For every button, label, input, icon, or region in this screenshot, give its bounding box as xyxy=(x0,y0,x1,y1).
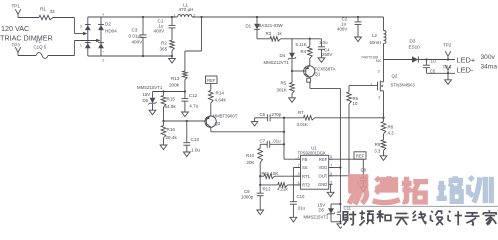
label D2 HD04 xyxy=(105,22,117,34)
pin 2 SS xyxy=(295,164,307,171)
svg-text:D2: D2 xyxy=(105,22,111,27)
svg-text:365: 365 xyxy=(160,47,168,52)
ground under R9 xyxy=(380,156,387,161)
wire OUT pin to R6 xyxy=(329,175,349,177)
svg-text:300v: 300v xyxy=(481,54,496,61)
svg-text:3: 3 xyxy=(298,172,300,176)
wire VDD rail vertical xyxy=(339,118,341,212)
resistor R1 33 xyxy=(39,7,55,20)
op-amp U1 TPS92001DGK body xyxy=(298,146,329,190)
svg-text:50mH: 50mH xyxy=(370,40,382,45)
svg-text:R15: R15 xyxy=(167,96,176,101)
pin 3 RT1 xyxy=(295,172,310,179)
svg-text:REF: REF xyxy=(207,78,216,83)
node C1 top xyxy=(171,16,173,18)
capacitor C8 0.47u xyxy=(357,159,367,185)
svg-text:C13: C13 xyxy=(191,137,200,142)
svg-text:3.3: 3.3 xyxy=(374,148,381,153)
diode D2c lower-left xyxy=(85,43,91,48)
transistor Q1 FCX558TA xyxy=(292,66,336,89)
svg-text:R10: R10 xyxy=(246,153,255,158)
ground under R5 xyxy=(291,94,293,98)
ground under C13 xyxy=(186,145,188,152)
svg-text:TP1: TP1 xyxy=(12,4,21,9)
svg-text:34ma: 34ma xyxy=(481,64,498,71)
diode D3 ES10 xyxy=(409,38,421,62)
pin 5 GND xyxy=(318,180,333,187)
svg-text:MMSZ15VT1: MMSZ15VT1 xyxy=(304,214,329,219)
node C3 top xyxy=(142,16,144,18)
ground under C11 xyxy=(339,222,341,224)
ground under C10 xyxy=(292,204,294,217)
resistor R14 4.64k xyxy=(209,83,227,115)
svg-text:D6: D6 xyxy=(143,98,149,103)
node 15V bias rail xyxy=(184,90,186,92)
svg-text:REF: REF xyxy=(356,154,365,159)
svg-text:.01u: .01u xyxy=(272,138,281,143)
svg-text:OUT: OUT xyxy=(318,173,327,178)
bottom DC rail (return) xyxy=(88,55,172,57)
node top rail to bias xyxy=(200,16,202,18)
svg-text:4.64k: 4.64k xyxy=(215,97,227,102)
pin 4 RT2 xyxy=(295,181,310,188)
ground main return xyxy=(171,56,173,58)
svg-text:TP2: TP2 xyxy=(443,42,452,47)
svg-text:C8: C8 xyxy=(361,168,367,173)
svg-text:R14: R14 xyxy=(216,91,225,96)
fuse F1 C1Q 5 xyxy=(34,39,49,58)
wire Q3 base net xyxy=(164,120,205,122)
wire 15V bias rail xyxy=(153,91,185,93)
svg-text:400V: 400V xyxy=(337,26,347,31)
svg-text:4.3: 4.3 xyxy=(388,130,395,135)
node R16 top xyxy=(162,120,164,122)
node R15 top xyxy=(162,90,164,92)
node R4 top xyxy=(309,38,311,40)
svg-text:TRIAC DIMMER: TRIAC DIMMER xyxy=(0,34,53,43)
ground under C9 xyxy=(259,196,261,210)
svg-text:FB: FB xyxy=(302,157,308,162)
resistor R13 200k xyxy=(169,71,187,99)
svg-text:R5: R5 xyxy=(281,80,287,85)
svg-text:8: 8 xyxy=(330,155,332,159)
diode D2a upper-left xyxy=(85,25,91,30)
ground under C4 xyxy=(321,49,323,58)
wire L2 bottom to D3 xyxy=(384,59,413,61)
svg-text:4: 4 xyxy=(298,181,300,185)
svg-text:C12: C12 xyxy=(189,93,198,98)
resistor R12 4.22k xyxy=(260,183,300,192)
svg-text:5: 5 xyxy=(330,180,332,184)
svg-text:120 VAC: 120 VAC xyxy=(1,24,29,33)
capacitor C13 1.0u xyxy=(183,121,200,152)
net label REF (U1) xyxy=(354,152,366,159)
node C5 tap xyxy=(425,58,427,60)
test point TP3 xyxy=(12,43,21,56)
diode D2d lower-right xyxy=(98,43,104,48)
svg-text:54.9k: 54.9k xyxy=(165,104,177,109)
wire Q3 collector to FB xyxy=(211,131,284,133)
node Q2 source sense xyxy=(382,117,384,119)
wire FB vertical xyxy=(283,118,285,159)
resistor R16 29.4k xyxy=(161,121,177,140)
svg-text:C9: C9 xyxy=(244,189,250,194)
svg-text:2: 2 xyxy=(298,164,300,168)
inductor L1 470 uH xyxy=(174,2,196,17)
diode D1 BAS21-03W xyxy=(246,17,284,39)
AC arrow into bridge left xyxy=(83,32,87,36)
capacitor C7 .01u xyxy=(260,138,285,147)
svg-text:R13: R13 xyxy=(171,76,180,81)
svg-text:RT2: RT2 xyxy=(302,183,311,188)
ground under D6 xyxy=(152,104,154,110)
svg-text:ES10: ES10 xyxy=(409,45,421,50)
svg-text:D1: D1 xyxy=(246,24,252,29)
node RT2 divider xyxy=(259,184,261,186)
svg-text:3: 3 xyxy=(378,96,380,100)
wire Q1 collector to VDD rail xyxy=(310,87,341,89)
svg-text:R16: R16 xyxy=(167,127,176,132)
svg-text:MMSZ12VT1: MMSZ12VT1 xyxy=(264,60,290,65)
svg-text:1000p: 1000p xyxy=(241,194,254,199)
ground under U1 GND xyxy=(327,192,334,197)
svg-text:D3: D3 xyxy=(410,38,416,43)
wire GND pin down xyxy=(330,184,332,192)
svg-text:RT1: RT1 xyxy=(302,174,311,179)
node R2 bottom xyxy=(171,55,173,57)
resistor R8 4.3 xyxy=(381,118,394,140)
svg-text:6: 6 xyxy=(330,172,332,176)
svg-text:+: + xyxy=(102,12,105,17)
svg-text:C1Q 5: C1Q 5 xyxy=(34,45,47,50)
node D1 top xyxy=(256,16,258,18)
pin 7 VDD xyxy=(318,164,332,171)
svg-text:400V: 400V xyxy=(132,39,144,44)
resistor R11 10K xyxy=(260,171,300,178)
svg-text:R3: R3 xyxy=(266,31,272,36)
transistor Q3 MMBT3906T xyxy=(205,114,238,132)
svg-text:.1U: .1U xyxy=(430,59,437,64)
svg-text:7: 7 xyxy=(330,164,332,168)
diode D2b upper-right xyxy=(98,25,104,30)
svg-text:1k: 1k xyxy=(277,31,282,36)
svg-text:5.11K: 5.11K xyxy=(296,42,307,47)
resistor R6 10 (gate) xyxy=(347,86,359,176)
svg-text:4.7u: 4.7u xyxy=(189,104,198,109)
capacitor C3 0.01uF 400V xyxy=(129,17,147,56)
wire R3 to C4 xyxy=(281,38,322,40)
svg-text:2: 2 xyxy=(102,59,104,63)
node FB drop xyxy=(283,117,285,119)
svg-text:3.01K: 3.01K xyxy=(297,122,309,127)
svg-text:TPS92001DGK: TPS92001DGK xyxy=(298,150,326,155)
svg-text:C5: C5 xyxy=(430,68,436,73)
pin 1 FB xyxy=(295,155,307,162)
watermark slogan characters xyxy=(343,210,496,225)
resistor R15 54.9k xyxy=(161,92,176,122)
resistor R3 1k xyxy=(266,31,283,41)
svg-text:400V: 400V xyxy=(154,28,166,33)
inductor L2 50mH 744770168 xyxy=(361,17,386,63)
capacitor C9 1000p xyxy=(241,189,264,200)
svg-text:Q1: Q1 xyxy=(315,71,321,76)
wire REF pin to C8 xyxy=(329,158,364,160)
svg-text:.01u: .01u xyxy=(297,205,306,210)
net label REF (bias) xyxy=(206,76,218,83)
svg-text:Q3: Q3 xyxy=(215,121,221,126)
svg-text:200k: 200k xyxy=(169,82,180,87)
resistor R2 365 xyxy=(160,40,175,56)
watermark underline xyxy=(344,205,498,207)
wire TP3 to fuse xyxy=(18,55,36,57)
svg-text:29.4k: 29.4k xyxy=(166,135,178,140)
node C13 tap xyxy=(186,120,188,122)
svg-text:D5: D5 xyxy=(319,208,325,213)
wire VDD pin to rail xyxy=(329,167,341,169)
svg-text:33: 33 xyxy=(50,9,56,14)
wire TP1 to R1 xyxy=(18,17,39,19)
svg-text:R12: R12 xyxy=(263,186,272,191)
svg-text:301K: 301K xyxy=(277,88,287,93)
wire D1 to R3 xyxy=(257,38,270,40)
svg-text:R9: R9 xyxy=(375,142,381,147)
svg-text:470 µH: 470 µH xyxy=(179,7,194,12)
ground under C2 xyxy=(357,24,359,37)
svg-text:LED+: LED+ xyxy=(457,56,476,65)
svg-text:R2: R2 xyxy=(161,40,167,45)
wire fuse to bridge AC- xyxy=(48,55,74,57)
svg-text:L2: L2 xyxy=(372,33,377,38)
transistor Q2 STN3N45K3 xyxy=(370,60,415,118)
node TP2 xyxy=(447,58,449,60)
node C3 bottom xyxy=(142,55,144,57)
zener D5 MMSZ15VT1 15V xyxy=(304,202,341,222)
wire D3 to LED+ xyxy=(418,59,455,61)
svg-text:C6: C6 xyxy=(260,112,266,117)
capacitor C12 4.7u xyxy=(181,93,198,109)
svg-text:VDD: VDD xyxy=(318,165,327,170)
svg-text:HD04: HD04 xyxy=(105,29,117,34)
ground under R16 xyxy=(163,138,165,145)
node FB / Q3 collector xyxy=(283,131,285,133)
pin 8 REF xyxy=(319,155,333,162)
wire C5 to LED- xyxy=(427,72,456,74)
ground under C12 xyxy=(184,101,186,112)
node VDD xyxy=(339,166,341,168)
wire R1 to bridge AC+ xyxy=(53,17,74,19)
ground under C8 xyxy=(362,181,364,187)
svg-text:1: 1 xyxy=(80,43,82,47)
capacitor C5 .1U xyxy=(423,59,436,74)
capacitor C11 xyxy=(337,205,352,214)
svg-text:1: 1 xyxy=(174,13,176,17)
node TP4 xyxy=(447,72,449,74)
wire rail down-left to R13 xyxy=(201,17,203,51)
svg-text:15V: 15V xyxy=(143,92,151,97)
node D5 bottom xyxy=(339,221,341,223)
svg-text:Q2: Q2 xyxy=(392,74,398,79)
capacitor C1 .1u 400V xyxy=(154,17,176,40)
svg-text:20K: 20K xyxy=(247,160,255,165)
svg-text:250V: 250V xyxy=(322,52,332,57)
svg-text:2: 2 xyxy=(378,70,380,74)
resistor R4 5.11K xyxy=(296,39,313,66)
svg-text:0.01µF: 0.01µF xyxy=(129,33,144,38)
wire gate xyxy=(349,85,378,87)
node C2 top xyxy=(357,16,359,18)
svg-text:BAS21-03W: BAS21-03W xyxy=(259,23,284,28)
bridge rectifier D2 HD04 left leg wire xyxy=(87,17,89,56)
top DC rail xyxy=(88,16,178,18)
capacitor C6 270p xyxy=(255,112,304,121)
svg-text:LED-: LED- xyxy=(457,66,474,75)
svg-text:R11 10K: R11 10K xyxy=(262,171,279,176)
svg-text:R8: R8 xyxy=(388,124,394,129)
svg-text:4.22k: 4.22k xyxy=(277,186,289,191)
svg-text:MMBT3906T: MMBT3906T xyxy=(213,114,238,119)
test point TP2 xyxy=(443,42,452,59)
svg-text:REF: REF xyxy=(319,157,328,162)
svg-text:C7: C7 xyxy=(260,138,266,143)
capacitor C10 .01u (SS) xyxy=(290,168,306,211)
svg-text:MC: MC xyxy=(376,59,382,63)
bridge rectifier right leg wire xyxy=(100,17,102,56)
svg-text:1.0u: 1.0u xyxy=(191,147,200,152)
node FB / C7 xyxy=(283,143,285,145)
test point TP1 xyxy=(12,4,21,18)
svg-text:270p: 270p xyxy=(272,112,282,117)
svg-text:SS: SS xyxy=(302,165,308,170)
capacitor C2 .1u 400V xyxy=(337,16,362,31)
watermark big characters xyxy=(348,176,491,204)
svg-text:R1: R1 xyxy=(40,7,46,12)
svg-text:STN3N45K3: STN3N45K3 xyxy=(391,83,416,88)
zener D4 MMSZ12VT1 xyxy=(264,39,297,71)
svg-text:1: 1 xyxy=(298,155,300,159)
node Q1 base tee xyxy=(291,70,293,72)
svg-text:C3: C3 xyxy=(132,27,138,32)
ground stub left of C6 xyxy=(254,118,256,122)
svg-text:R7: R7 xyxy=(298,110,304,115)
resistor R7 3.01K xyxy=(297,110,384,127)
AC arrow into bridge right xyxy=(96,39,100,43)
svg-text:10: 10 xyxy=(353,101,358,106)
zener D6 MMSZ15VT1 15V xyxy=(137,85,163,104)
svg-text:3: 3 xyxy=(80,24,82,28)
capacitor C4 1.0u 250V xyxy=(318,39,332,57)
svg-text:D4: D4 xyxy=(280,53,286,58)
svg-text:1.0u: 1.0u xyxy=(319,40,328,45)
svg-text:2: 2 xyxy=(193,14,195,18)
test point TP4 xyxy=(443,64,452,73)
svg-text:MMSZ15VT1: MMSZ15VT1 xyxy=(137,85,163,90)
svg-text:TP4: TP4 xyxy=(443,64,452,69)
node D5 top xyxy=(339,203,341,205)
svg-text:GND: GND xyxy=(318,182,327,187)
pin 6 OUT xyxy=(318,172,332,179)
svg-text:TP3: TP3 xyxy=(12,43,21,48)
resistor R9 3.3 xyxy=(374,140,386,156)
resistor R5 301K xyxy=(277,71,295,94)
svg-text:F1: F1 xyxy=(36,39,42,44)
node RT1 divider xyxy=(259,175,261,177)
svg-text:C10: C10 xyxy=(297,194,305,199)
ground at TP4 xyxy=(447,73,449,80)
svg-text:R4: R4 xyxy=(301,49,307,54)
resistor R10 20K xyxy=(246,144,263,193)
